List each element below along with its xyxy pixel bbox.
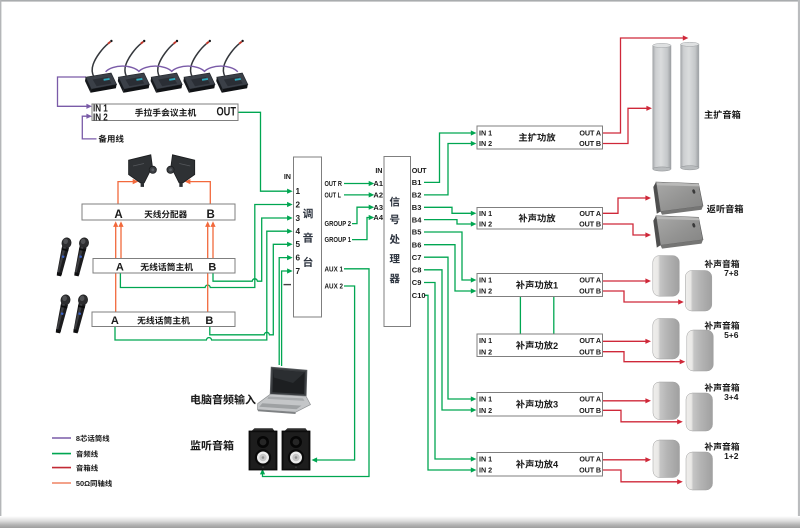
svg-text:IN 1: IN 1: [479, 129, 492, 138]
svg-text:A1: A1: [373, 179, 383, 188]
svg-text:IN 2: IN 2: [93, 112, 108, 124]
wall speaker 2 补声音箱: [686, 452, 713, 490]
wire: coax: wireless host 1 B to splitter: [210, 221, 215, 258]
conference host labels: [93, 102, 236, 123]
svg-text:B2: B2: [412, 191, 422, 200]
label: computer audio input 电脑音频输入: [191, 394, 256, 405]
wire: speaker line: fill amp 1 OUT A to wall speaker 7: [603, 278, 651, 283]
svg-text:3+4: 3+4: [724, 392, 739, 402]
wall speaker 1 补声音箱: [653, 440, 680, 478]
fill amplifier 1 补声功放1 labels: [479, 276, 601, 296]
box: mixer 调音台: [294, 157, 322, 317]
wall speaker 3 补声音箱: [653, 382, 680, 420]
svg-text:OUT L: OUT L: [325, 193, 342, 200]
wall speaker 8 补声音箱: [685, 271, 712, 312]
box: fill amplifier 2 补声功放2: [477, 334, 603, 357]
wire: speaker line: stage amp OUT B to wedge monitor 2: [603, 224, 651, 238]
svg-text:OUT A: OUT A: [579, 395, 601, 404]
wall speaker 5 补声音箱: [653, 319, 680, 360]
conference microphone unit 2: [118, 40, 150, 93]
antenna 2 (paddle, mirrored): [167, 155, 195, 187]
wire: audio line: conference host OUT to mixer input 1: [238, 112, 293, 194]
svg-text:OUT B: OUT B: [579, 466, 601, 475]
svg-text:5: 5: [296, 240, 301, 249]
wire: audio line: laptop left channel to mixer input 6: [279, 255, 293, 365]
svg-text:IN 2: IN 2: [479, 139, 492, 148]
wire: coax: splitter A to antenna 1: [118, 179, 138, 204]
svg-text:OUT A: OUT A: [579, 336, 601, 345]
svg-text:IN 2: IN 2: [479, 466, 492, 475]
wedge monitor speaker 2 返听音箱: [653, 216, 703, 249]
wire: audio line: processor B6 to fill amp 1 IN 2: [424, 245, 476, 294]
svg-text:IN: IN: [375, 166, 382, 175]
box: signal processor 信号处理器: [384, 157, 411, 327]
box: antenna splitter 天线分配器: [82, 204, 235, 220]
wire: audio line: wireless host 2 B to mixer input 5: [210, 242, 293, 335]
label: stage wedges 返听音箱: [707, 204, 743, 213]
svg-text:OUT B: OUT B: [579, 347, 601, 356]
svg-text:B: B: [208, 262, 216, 274]
svg-text:OUT A: OUT A: [579, 455, 601, 464]
svg-text:50Ω: 50Ω: [76, 479, 90, 488]
svg-text:IN 2: IN 2: [479, 220, 492, 229]
wire: coax: wireless host 2 B to splitter: [205, 221, 210, 312]
wall speaker 7 补声音箱: [653, 256, 680, 297]
wire: audio line: mixer OUT L to processor A2: [344, 192, 374, 197]
svg-text:B4: B4: [412, 215, 422, 224]
svg-text:OUT B: OUT B: [579, 220, 601, 229]
label: monitor speakers 监听音箱: [190, 440, 233, 451]
svg-text:7+8: 7+8: [724, 268, 739, 278]
label: fill speakers 补声音箱 3+4: [705, 383, 740, 402]
wedge monitor speaker 1 返听音箱: [653, 182, 703, 215]
svg-text:IN 2: IN 2: [479, 287, 492, 296]
svg-text:IN 1: IN 1: [479, 455, 492, 464]
main amplifier 主扩功放 labels: [479, 129, 601, 149]
wire: coax: wireless host 2 A to splitter: [113, 221, 118, 312]
box: conference host 手拉手会议主机: [92, 104, 238, 121]
svg-text:OUT: OUT: [217, 106, 237, 118]
box: fill amplifier 1 补声功放1: [477, 273, 603, 296]
wire: speaker line: fill amp 2 OUT A to wall speaker 5: [603, 339, 651, 344]
label: fill speakers 补声音箱 1+2: [705, 442, 740, 461]
svg-text:A: A: [116, 262, 124, 274]
svg-text:B1: B1: [412, 178, 422, 187]
svg-text:IN 1: IN 1: [479, 276, 492, 285]
svg-text:OUT: OUT: [412, 166, 427, 175]
svg-text:C9: C9: [412, 278, 422, 287]
svg-text:4: 4: [296, 227, 301, 236]
svg-text:1: 1: [296, 187, 301, 196]
svg-text:A: A: [114, 209, 122, 221]
fill amplifier 4 补声功放4 labels: [479, 455, 601, 475]
wire: audio line: processor B3 to stage-fill amp IN 1: [424, 207, 476, 216]
handheld wireless microphone 4: [71, 294, 89, 334]
laptop (computer audio input): [258, 367, 311, 414]
label: fill speakers 补声音箱 7+8: [705, 260, 740, 279]
svg-text:IN 1: IN 1: [479, 209, 492, 218]
svg-text:4: 4: [553, 460, 559, 470]
svg-text:C7: C7: [412, 253, 422, 262]
wire: audio line: processor C9 to fill amp 4 IN 1: [424, 283, 476, 462]
mixer labels: [284, 172, 352, 291]
monitor speaker 2 监听音箱: [282, 428, 310, 470]
stage-fill amplifier 补声功放 labels: [479, 209, 601, 229]
svg-text:3: 3: [553, 400, 558, 410]
svg-text:2: 2: [296, 200, 301, 209]
svg-text:C10: C10: [412, 291, 426, 300]
wire: audio line: wireless host 1 A to mixer input 2: [120, 202, 292, 288]
wire: speaker line: stage amp OUT A to wedge monitor 1: [603, 195, 651, 213]
wire: speaker line: main amp OUT A to column speaker 2: [603, 35, 689, 133]
svg-text:AUX 1: AUX 1: [325, 266, 344, 273]
backup line label 备用线: [99, 135, 124, 143]
svg-text:3: 3: [296, 214, 301, 223]
wire: audio line: mixer GROUP 1 to processor A4: [352, 215, 374, 240]
handheld wireless microphone 1: [54, 237, 72, 277]
wire: audio line: processor B5 to fill amp 1 IN 1: [424, 232, 476, 283]
wire: audio line: processor B4 to stage-fill amp IN 2: [424, 220, 476, 227]
svg-text:IN: IN: [284, 172, 291, 181]
legend: 50-ohm coax 50Ω同轴线: [52, 479, 112, 488]
wire: speaker line: fill amp 3 OUT A to wall speaker 3: [603, 398, 651, 403]
svg-text:1: 1: [553, 280, 558, 290]
monitor speaker 1 监听音箱: [249, 428, 277, 470]
box: wireless mic host 2 无线话筒主机: [92, 312, 235, 327]
fill amplifier 3 补声功放3 labels: [479, 395, 601, 415]
svg-text:1+2: 1+2: [724, 451, 739, 461]
legend: audio line 音频线: [52, 450, 98, 457]
wire: 8-core mic cable from conference mic 1 to host IN 1: [58, 77, 93, 109]
box: main amplifier 主扩功放: [477, 126, 603, 149]
8-core daisy-chain cable mic 3 to mic 4: [171, 66, 205, 72]
box: fill amplifier 3 补声功放3: [477, 393, 603, 417]
wire: audio line: wireless host 2 A to mixer input 4: [115, 229, 293, 340]
svg-text:6: 6: [296, 254, 301, 263]
wire: audio line: mixer OUT R to processor A1: [344, 181, 374, 186]
svg-text:B5: B5: [412, 228, 422, 237]
wireless host 1 labels: [116, 262, 217, 274]
wire: audio line: laptop right channel to mixer input 7: [282, 268, 293, 366]
8-core daisy-chain cable mic 1 to mic 2: [106, 66, 140, 72]
wire: speaker line: main amp OUT B to column speaker 1: [603, 106, 652, 144]
wire: audio line: processor C8 to fill amp 3 IN 2: [424, 270, 476, 413]
svg-text:IN 1: IN 1: [479, 395, 492, 404]
svg-text:AUX 2: AUX 2: [325, 284, 344, 291]
antenna 1 (paddle): [129, 155, 157, 187]
svg-text:A2: A2: [373, 191, 383, 200]
wire: speaker line: fill amp 4 OUT A to wall speaker 1: [603, 457, 651, 462]
processor labels: [373, 166, 427, 300]
conference microphone unit 5: [216, 40, 248, 93]
wire: audio line: mixer AUX 2 to monitor speaker 2: [312, 286, 355, 463]
svg-text:IN 2: IN 2: [479, 347, 492, 356]
svg-text:OUT A: OUT A: [579, 276, 601, 285]
wire: audio line: mixer AUX 1 to monitor speaker 1: [260, 269, 369, 477]
svg-text:B: B: [206, 209, 214, 221]
svg-text:C8: C8: [412, 266, 422, 275]
wire: audio link: fill amp 1 to fill amp 2 (channel A): [519, 297, 521, 335]
8-core daisy-chain cable mic 2 to mic 3: [138, 66, 172, 72]
conference microphone unit 1: [85, 40, 117, 93]
svg-text:A: A: [111, 315, 119, 327]
box: fill amplifier 4 补声功放4: [477, 453, 603, 477]
wire: speaker line: fill amp 4 OUT B to wall speaker 2: [603, 470, 683, 484]
column speaker 2 主扩音箱: [681, 42, 699, 170]
wire: audio line: processor B2 to main amp IN 2: [424, 141, 476, 195]
svg-text:B3: B3: [412, 203, 422, 212]
fill amplifier 2 补声功放2 labels: [479, 336, 601, 356]
svg-text:A4: A4: [373, 213, 383, 222]
conference microphone unit 4: [183, 40, 215, 93]
wireless host 2 labels: [111, 315, 213, 327]
svg-text:OUT B: OUT B: [579, 139, 601, 148]
wire: coax: wireless host 1 A to splitter: [118, 221, 123, 258]
svg-text:OUT R: OUT R: [325, 181, 343, 188]
wall speaker 6 补声音箱: [687, 330, 714, 371]
label: main speakers 主扩音箱: [704, 110, 740, 119]
svg-text:OUT A: OUT A: [579, 129, 601, 138]
svg-text:5+6: 5+6: [724, 330, 739, 340]
8-core daisy-chain cable mic 4 to mic 5: [204, 66, 238, 72]
column speaker 1 主扩音箱: [653, 43, 671, 171]
handheld wireless microphone 3: [53, 294, 71, 334]
svg-text:2: 2: [553, 341, 558, 351]
wire: audio line: processor C10 to fill amp 4 IN 2: [424, 295, 476, 472]
svg-text:IN 1: IN 1: [479, 336, 492, 345]
wall speaker 4 补声音箱: [686, 393, 713, 431]
svg-text:B6: B6: [412, 240, 422, 249]
wire: speaker line: fill amp 1 OUT B to wall speaker 8: [603, 291, 684, 305]
wire: audio line: wireless host 1 B to mixer input 3: [213, 215, 293, 281]
wire: spare 8-core cable (backup) to host IN 2: [82, 114, 96, 139]
svg-text:IN 2: IN 2: [479, 406, 492, 415]
antenna splitter labels: [114, 209, 214, 221]
wire: audio line: mixer GROUP 2 to processor A3: [352, 205, 374, 224]
conference microphone unit 3: [151, 40, 183, 93]
wire: speaker line: fill amp 2 OUT B to wall speaker 6: [603, 352, 686, 365]
svg-text:A3: A3: [373, 203, 383, 212]
svg-text:GROUP 1: GROUP 1: [325, 237, 352, 244]
wire: audio line: processor C7 to fill amp 3 IN 1: [424, 257, 476, 401]
handheld wireless microphone 2: [72, 237, 90, 277]
legend: 8-core mic cable 8芯话筒线: [52, 434, 109, 443]
svg-text:7: 7: [296, 267, 301, 276]
wire: speaker line: fill amp 3 OUT B to wall speaker 4: [603, 410, 683, 424]
box: wireless mic host 1 无线话筒主机: [93, 259, 235, 274]
svg-text:OUT A: OUT A: [579, 209, 601, 218]
wire: audio link: fill amp 1 to fill amp 2 (channel B): [553, 297, 555, 335]
svg-text:OUT B: OUT B: [579, 406, 601, 415]
svg-text:8: 8: [76, 434, 80, 443]
footer gray bar: [0, 516, 800, 528]
wire: coax: splitter B to antenna 2: [185, 179, 211, 204]
svg-text:GROUP 2: GROUP 2: [325, 221, 352, 228]
svg-text:B: B: [205, 315, 213, 327]
label: fill speakers 补声音箱 5+6: [705, 321, 740, 340]
legend: speaker line 音箱线: [52, 464, 98, 471]
svg-text:OUT B: OUT B: [579, 287, 601, 296]
wire: audio line: processor B1 to main amp IN 1: [424, 130, 476, 182]
box: stage-fill amplifier 补声功放: [477, 208, 603, 230]
